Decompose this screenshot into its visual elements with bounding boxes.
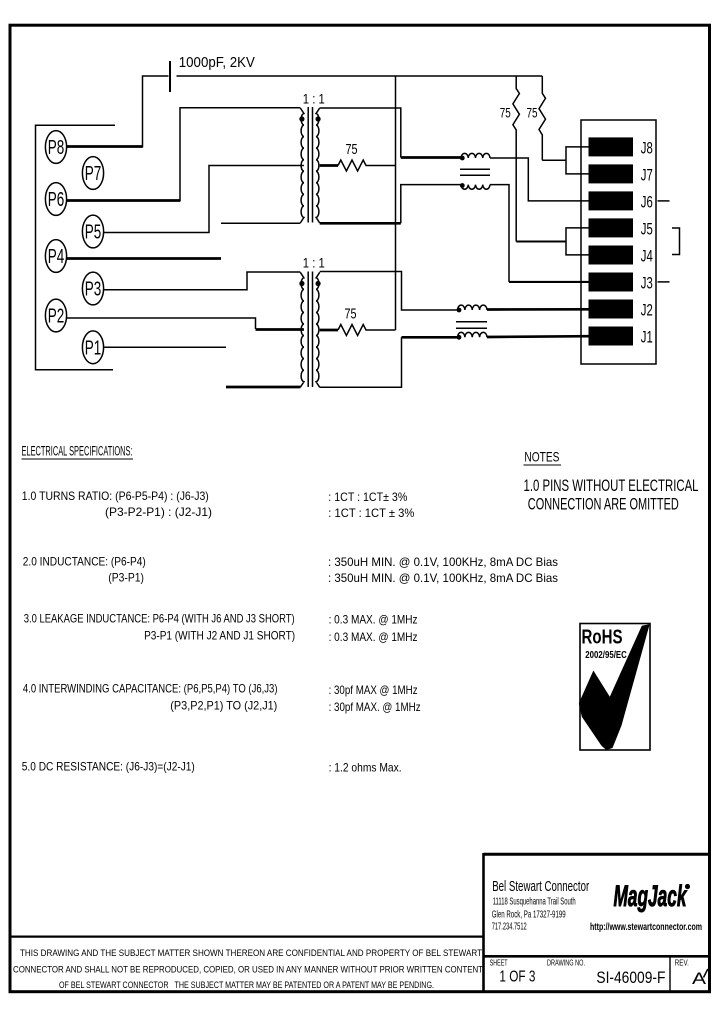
svg-text:NOTES: NOTES — [524, 449, 559, 465]
connector shell box (left P-pin group) — [36, 125, 116, 370]
resistor R3 75 ohm (left vertical) — [513, 76, 520, 242]
contact J7 — [589, 164, 634, 183]
svg-text:J3: J3 — [641, 274, 653, 293]
svg-text:SI-46009-F: SI-46009-F — [596, 969, 665, 987]
svg-text:J8: J8 — [641, 139, 653, 158]
svg-text:P3-P1 (WITH J2 AND J1 SHORT): P3-P1 (WITH J2 AND J1 SHORT) — [144, 629, 295, 643]
wire P5 to transformer T1 primary center tap — [104, 166, 304, 233]
svg-text:: 1CT : 1CT ± 3%: : 1CT : 1CT ± 3% — [328, 506, 414, 520]
disclaimer box — [10, 935, 484, 937]
svg-text:CONNECTION ARE OMITTED: CONNECTION ARE OMITTED — [528, 496, 679, 514]
wire R4 to J8-J7 link — [542, 159, 566, 161]
transformer T2 secondary winding — [316, 272, 320, 387]
svg-text:MagJack: MagJack — [614, 880, 688, 913]
svg-text:CONNECTOR AND SHALL NOT BE REP: CONNECTOR AND SHALL NOT BE REPRODUCED, C… — [13, 965, 483, 976]
svg-text:75: 75 — [345, 306, 357, 323]
choke L2 top coil — [458, 305, 487, 310]
svg-text:J1: J1 — [641, 328, 653, 347]
svg-text:J4: J4 — [641, 247, 653, 266]
transformer T1 phase dots — [299, 116, 304, 121]
wire T2 secondary bottom to choke L2 — [320, 337, 402, 387]
svg-text:(P3,P2,P1) TO (J2,J1): (P3,P2,P1) TO (J2,J1) — [170, 699, 277, 713]
link box J5-J4 — [566, 228, 589, 255]
svg-text:: 30pf MAX @ 1MHz: : 30pf MAX @ 1MHz — [329, 683, 418, 697]
svg-text:SHEET: SHEET — [490, 959, 508, 968]
svg-text:1 : 1: 1 : 1 — [303, 90, 325, 106]
resistor R1 75 ohm zigzag — [320, 164, 338, 167]
link box J8-J7 — [566, 147, 589, 174]
wire T1 secondary bottom to choke L1 — [320, 222, 401, 225]
capacitor C1 plate — [169, 61, 171, 92]
svg-text:1 OF 3: 1 OF 3 — [499, 969, 535, 986]
tick at J6 — [658, 200, 670, 202]
svg-text:P7: P7 — [85, 163, 102, 185]
svg-text:ELECTRICAL SPECIFICATIONS:: ELECTRICAL SPECIFICATIONS: — [22, 444, 133, 459]
pin P8 — [45, 131, 66, 164]
svg-text:: 1.2 ohms Max.: : 1.2 ohms Max. — [329, 761, 402, 775]
svg-text:1.0 TURNS RATIO: (P6-P5-P4) :: 1.0 TURNS RATIO: (P6-P5-P4) : (J6-J3) — [22, 489, 209, 503]
svg-text:1000pF, 2KV: 1000pF, 2KV — [179, 54, 255, 71]
svg-text:: 1CT : 1CT± 3%: : 1CT : 1CT± 3% — [328, 490, 407, 504]
svg-text:(P3-P2-P1) : (J2-J1): (P3-P2-P1) : (J2-J1) — [105, 505, 212, 519]
svg-text:P1: P1 — [85, 337, 102, 359]
svg-text:: 0.3 MAX. @ 1MHz: : 0.3 MAX. @ 1MHz — [329, 630, 418, 644]
wire P1 stub — [104, 346, 226, 348]
wire choke L2 top to J2 — [487, 308, 589, 311]
contact J3 — [589, 273, 634, 292]
pin P4 — [45, 240, 66, 273]
svg-text:DRAWING NO.: DRAWING NO. — [547, 959, 585, 968]
svg-text:J6: J6 — [641, 193, 653, 212]
svg-text:J5: J5 — [641, 220, 653, 239]
wire R3 to J5-J4 link — [516, 240, 566, 242]
pin P3 — [82, 272, 103, 305]
svg-text:5.0 DC RESISTANCE: (J6-J3)=(J2: 5.0 DC RESISTANCE: (J6-J3)=(J2-J1) — [22, 760, 195, 774]
choke L1 top coil — [461, 153, 490, 158]
wire P2 to transformer T2 primary center tap — [67, 318, 256, 329]
choke L2 bottom coil — [458, 332, 487, 337]
resistor R4 75 ohm (right vertical) — [539, 76, 546, 160]
wire P8 to capacitor — [67, 145, 143, 148]
svg-text:RoHS: RoHS — [582, 627, 623, 649]
wire common bus top horizontal — [177, 75, 543, 77]
wire choke L1 bottom to J3 — [490, 185, 509, 282]
svg-text:P2: P2 — [48, 306, 65, 328]
svg-text:11118 Susquehanna Trail South: 11118 Susquehanna Trail South — [493, 897, 576, 908]
pin P7 — [82, 157, 103, 190]
pin P2 — [45, 299, 66, 332]
transformer T2 phase dots — [299, 281, 304, 286]
wire T2 primary bottom stub — [226, 386, 300, 389]
svg-text:REV.: REV. — [675, 959, 689, 968]
wire choke L2 bottom to J1 — [487, 335, 589, 338]
svg-text:3.0 LEAKAGE INDUCTANCE: P6-P4: 3.0 LEAKAGE INDUCTANCE: P6-P4 (WITH J6 A… — [24, 612, 295, 626]
svg-text:2.0 INDUCTANCE: (P6-P4): 2.0 INDUCTANCE: (P6-P4) — [23, 555, 146, 569]
svg-text:717.234.7512: 717.234.7512 — [492, 922, 527, 933]
svg-text:: 0.3 MAX. @ 1MHz: : 0.3 MAX. @ 1MHz — [329, 613, 418, 627]
title block outer — [484, 853, 710, 856]
wire P6 to transformer T1 primary top — [67, 199, 180, 202]
svg-text:http://www.stewartconnector.co: http://www.stewartconnector.com — [590, 921, 702, 933]
svg-text:THIS DRAWING AND THE SUBJECT M: THIS DRAWING AND THE SUBJECT MATTER SHOW… — [20, 948, 482, 959]
bracket J5-J4 — [672, 228, 680, 255]
contact J4 — [589, 246, 634, 265]
wire T2 secondary top to choke L2 — [320, 272, 458, 311]
svg-text:Bel Stewart Connector: Bel Stewart Connector — [492, 879, 589, 895]
contact J5 — [589, 218, 634, 237]
RoHS logo box — [580, 624, 650, 751]
transformer T2 primary winding — [300, 272, 304, 387]
pin P1 — [82, 331, 103, 364]
choke L1 bottom coil — [461, 185, 490, 190]
svg-text:OF BEL STEWART CONNECTOR THE: OF BEL STEWART CONNECTOR THE SUBJECT MAT… — [59, 980, 434, 991]
svg-text:P6: P6 — [48, 189, 65, 211]
svg-text:(P3-P1): (P3-P1) — [108, 571, 144, 585]
contact J8 — [589, 137, 634, 156]
svg-text:Glen Rock, Pa 17327-9199: Glen Rock, Pa 17327-9199 — [492, 910, 566, 921]
svg-text:J7: J7 — [641, 166, 653, 185]
svg-text:P8: P8 — [48, 137, 65, 159]
RoHS checkmark — [579, 624, 650, 750]
svg-text:: 350uH MIN. @ 0.1V, 100KHz, 8: : 350uH MIN. @ 0.1V, 100KHz, 8mA DC Bias — [328, 571, 558, 585]
svg-text:1 : 1: 1 : 1 — [303, 254, 325, 270]
contact J1 — [589, 327, 634, 346]
svg-text:1.0 PINS WITHOUT ELECTRICAL: 1.0 PINS WITHOUT ELECTRICAL — [524, 477, 699, 495]
svg-text:75: 75 — [346, 141, 358, 158]
svg-text:J2: J2 — [641, 301, 653, 320]
contact J6 — [589, 191, 634, 210]
svg-text:2002/95/EC: 2002/95/EC — [585, 649, 627, 661]
transformer T2 core — [308, 272, 312, 388]
wire choke L1 top to J6 — [490, 158, 589, 201]
svg-text:75: 75 — [500, 105, 511, 121]
svg-text:: 30pf MAX. @ 1MHz: : 30pf MAX. @ 1MHz — [329, 700, 421, 714]
transformer T1 primary winding — [300, 108, 304, 223]
wire T1 primary bottom stub — [221, 222, 300, 224]
svg-text:75: 75 — [527, 105, 538, 121]
svg-text:A: A — [692, 969, 707, 988]
wire P4 stub — [67, 257, 221, 260]
svg-text:4.0 INTERWINDING CAPACITANCE:: 4.0 INTERWINDING CAPACITANCE: (P6,P5,P4)… — [23, 682, 278, 696]
jack shell outline — [581, 120, 656, 364]
svg-text:P4: P4 — [48, 246, 65, 268]
svg-text:P5: P5 — [85, 222, 102, 244]
choke L1 core — [460, 169, 490, 175]
svg-text:P3: P3 — [85, 279, 102, 301]
wire T1 secondary top to choke L1 — [320, 108, 401, 158]
svg-text:: 350uH MIN. @ 0.1V, 100KHz, 8: : 350uH MIN. @ 0.1V, 100KHz, 8mA DC Bias — [328, 555, 558, 569]
resistor R2 75 ohm zigzag — [320, 329, 338, 332]
choke L2 core — [456, 322, 487, 328]
transformer T1 core — [308, 107, 312, 223]
wire P3 to transformer T2 primary top — [104, 272, 300, 290]
contact J2 — [589, 300, 634, 319]
wire common bus vertical — [395, 76, 397, 330]
pin P6 — [45, 183, 66, 216]
pin P5 — [82, 215, 103, 248]
tick at J3 — [658, 281, 670, 283]
transformer T1 secondary winding — [316, 108, 320, 223]
